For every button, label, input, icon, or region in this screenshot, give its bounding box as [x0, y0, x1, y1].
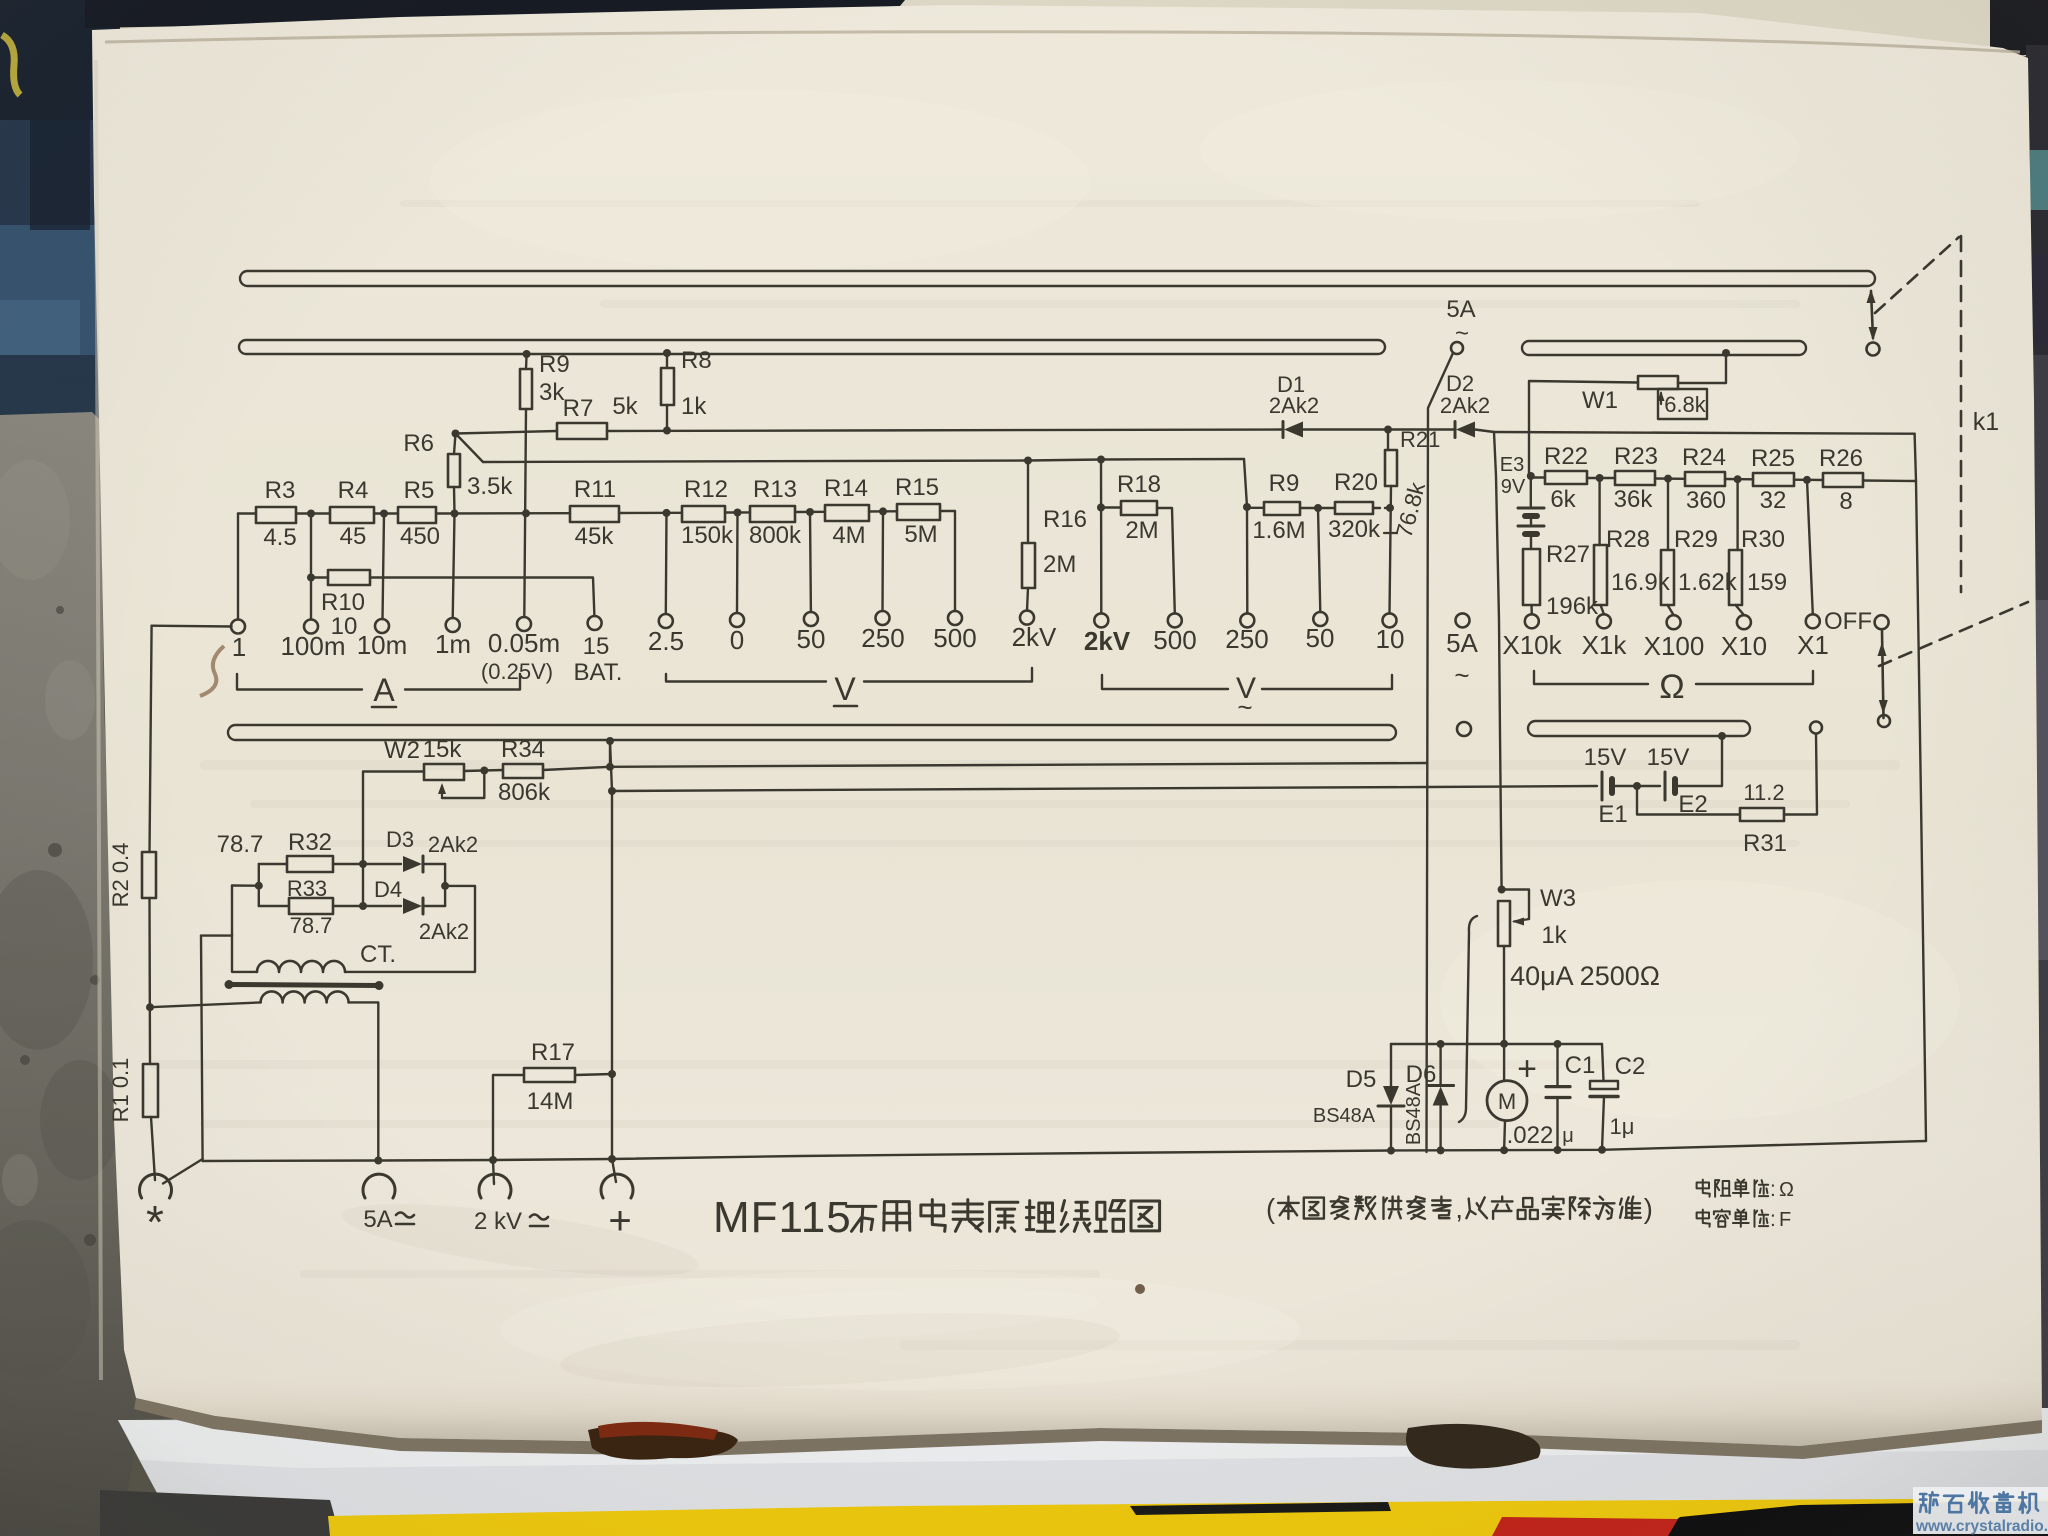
- resistor R7 5k: [557, 423, 607, 439]
- wire 250 ac junction vertical: [1246, 507, 1249, 613]
- resistor R27 196k: [1523, 549, 1540, 605]
- terminal X1k: [1597, 614, 1611, 628]
- wire E2 right corner up to bar row3 right: [1675, 738, 1722, 786]
- wire R6 top to node: [454, 434, 456, 455]
- resistor R22 6k: [1545, 471, 1587, 484]
- wire A-row resistor chain: [238, 512, 256, 514]
- terminal X10: [1737, 615, 1751, 629]
- switch contact 5A top: [1451, 342, 1463, 354]
- wire bottom long line: [203, 1141, 1926, 1161]
- wire R6 wiper diagonal: [456, 434, 484, 463]
- page stack pale band top: [85, 0, 2048, 60]
- wire D1 to R21 junction to D2: [1303, 428, 1454, 430]
- resistor R32 78.7: [259, 863, 287, 865]
- wire R16 top: [1027, 461, 1029, 544]
- wire D3 to right node: [424, 863, 445, 865]
- wire R31 branch: [1637, 786, 1740, 815]
- svg-text:www.crystalradio.cn: www.crystalradio.cn: [1915, 1518, 2048, 1535]
- dashed link k1 upper: [1875, 237, 1959, 313]
- bus bar row2 right: [1522, 341, 1806, 355]
- wire D2 to omega block corner: [1475, 430, 1494, 433]
- paper crease bottom-middle: [559, 1301, 1122, 1398]
- dark shade bottom-left under page: [100, 1490, 340, 1536]
- value box 6.8k with wiper arrow: [1658, 389, 1707, 419]
- contact circle 5A lower: [1457, 722, 1471, 736]
- paper subtle shading streaks: [150, 200, 1900, 1350]
- resistor R10 10 shunt: [328, 570, 370, 585]
- resistor R16 2M: [1022, 543, 1035, 588]
- wire R8 top to bar row2: [666, 353, 668, 368]
- wire R31 right up to contact circle: [1784, 734, 1817, 815]
- wire R24 to R25 junction: [1725, 478, 1753, 481]
- resistor R8 1k: [661, 368, 674, 405]
- battery E1 15V: [1601, 772, 1604, 800]
- resistor R34 806k: [503, 764, 543, 778]
- wire plus vertical: [610, 741, 612, 1159]
- wire 5A diagonal to vertical: [1427, 353, 1453, 763]
- wire R32 R33 left node: [258, 864, 260, 906]
- wire R6 bottom to A-row junction: [453, 487, 456, 514]
- wire R5 to R6 junction to R11: [436, 512, 570, 515]
- battery E3 9V: [1527, 472, 1535, 480]
- wire R29 to X100: [1668, 605, 1674, 615]
- switch wiper arrow k1 on bar row1: [1871, 291, 1873, 338]
- wire R21 bottom to 10 terminal: [1390, 486, 1392, 613]
- bracket A range: [237, 674, 362, 690]
- wire R11 to 2.5 junction: [619, 512, 682, 515]
- wire R12 to 0 junction: [725, 511, 750, 513]
- terminal X1: [1806, 614, 1820, 628]
- wire 2kV ac vertical: [1100, 460, 1103, 614]
- bracket ohm range: [1534, 671, 1648, 684]
- transformer CT secondary winding: [232, 886, 257, 972]
- resistor R33 78.7: [259, 905, 289, 907]
- wire R8 bottom to R7 line: [666, 405, 668, 431]
- diode D5 BS48A: [1390, 1044, 1392, 1086]
- resistor R6 3.5k: [448, 454, 460, 487]
- wire left vertical R2 R1 chain: [150, 626, 152, 852]
- terminal X10k: [1525, 614, 1539, 628]
- resistor R20 320k: [1335, 502, 1373, 514]
- terminal 50 ac: [1313, 612, 1327, 626]
- wire battery row E1 E2: [612, 786, 1597, 791]
- wire R10 row to BAT terminal: [311, 576, 328, 578]
- diode D1 2Ak2: [1282, 422, 1285, 438]
- resistor R31 11.2: [1740, 808, 1784, 821]
- wire R27 to X10k: [1530, 605, 1533, 614]
- wire terminal 1 to left vertical: [152, 625, 232, 628]
- wire R9 bottom vertical to 0.05m terminal: [524, 409, 526, 617]
- wire R33 to D4: [333, 905, 401, 907]
- wire R20 dashed link to R21: [1373, 507, 1389, 509]
- wire R9 top to bar row2: [525, 354, 528, 369]
- potentiometer W3 1k: [1498, 901, 1510, 946]
- terminal 1: [231, 620, 245, 634]
- wire R28 to X1k: [1601, 605, 1604, 614]
- bracket V range: [666, 674, 826, 682]
- meter zero lever line: [1459, 916, 1477, 1122]
- resistor R25 32: [1753, 473, 1794, 486]
- resistor R15 5M: [897, 504, 940, 520]
- contact circle k1: [1867, 343, 1880, 356]
- terminal 500: [948, 611, 962, 625]
- wiper W2 arrow: [442, 771, 484, 799]
- meter M movement: [1503, 1044, 1505, 1081]
- bus bar row3 left: [228, 725, 1396, 740]
- wire R23 to R24 junction: [1655, 477, 1685, 480]
- yellow band bottom: [328, 1499, 2048, 1536]
- wire R9 to R20 junction: [1300, 507, 1335, 509]
- wire R7 row to D1 D2: [456, 431, 558, 434]
- potentiometer W1 6.8k: [1638, 376, 1678, 389]
- switch arrow OFF to lower contact: [1882, 631, 1884, 718]
- dashed link k1 vertical: [1960, 236, 1963, 592]
- terminal 250: [876, 611, 890, 625]
- terminal 5A: [1456, 613, 1470, 627]
- diode D2 2Ak2: [1454, 422, 1457, 438]
- resistor R14 4M: [825, 505, 869, 521]
- resistor R23 36k: [1615, 471, 1655, 485]
- wire 250 junction to R9: [1247, 507, 1264, 509]
- watermark crystalradio: [1913, 1487, 2048, 1535]
- terminal X100: [1667, 615, 1681, 629]
- terminal 1m: [446, 618, 460, 632]
- wire R30 to X10: [1736, 605, 1744, 615]
- terminal 500 ac: [1168, 613, 1182, 627]
- wire R25 to R26 junction: [1794, 479, 1823, 482]
- resistor R9 1.6M: [1264, 502, 1300, 515]
- battery E2 15V: [1664, 772, 1667, 800]
- wire R17 left: [493, 1075, 524, 1160]
- bracket V~ range: [1102, 675, 1228, 689]
- wire node R6 top junction: [452, 430, 460, 438]
- resistor R29 1.62k: [1667, 479, 1669, 550]
- resistor R4 45: [330, 507, 374, 523]
- wire R15 to 500 terminal: [940, 511, 955, 611]
- terminal 2kV dc: [1020, 611, 1034, 625]
- resistor R11 45k: [570, 506, 619, 522]
- resistor R12 150k: [682, 506, 725, 522]
- concrete ground left: [0, 412, 140, 1536]
- terminal 2kV ac bottom: [493, 1160, 494, 1184]
- terminal 10 ac: [1383, 613, 1397, 627]
- resistor R9 3k: [520, 369, 532, 409]
- terminal plus: [612, 1159, 616, 1182]
- wire W2 left corner down to D3 row: [363, 772, 424, 907]
- white under-page bottom: [118, 1408, 2048, 1536]
- wire omega block top right corner down: [1915, 434, 1916, 481]
- wire R32 to D3: [333, 863, 401, 865]
- wire omega block top line: [1494, 432, 1915, 434]
- resistor R30 159: [1736, 479, 1738, 550]
- resistor R28 16.9k: [1598, 478, 1600, 545]
- wire R16 bottom to 2kV dc terminal: [1027, 588, 1028, 611]
- resistor R26 8: [1823, 473, 1863, 487]
- resistor R18 2M: [1121, 501, 1157, 515]
- wire E3 node to R22: [1531, 476, 1545, 478]
- resistor R21 76.8k: [1385, 450, 1397, 486]
- wire corner diagonal to star terminal: [163, 1159, 203, 1184]
- wire W2 row from bar row3: [606, 737, 614, 745]
- wire R21 top to D1 line: [1387, 430, 1389, 451]
- stain crack near 100m: [200, 646, 224, 696]
- wire W1 left to E3 vertical: [1529, 381, 1638, 476]
- wire 2kV rail corner down to 250 junction: [1244, 459, 1247, 507]
- terminal 250 ac: [1240, 613, 1254, 627]
- wire R6 line to R16 and 2kV rail: [483, 459, 1244, 462]
- note capacitance unit: [1697, 1210, 1710, 1227]
- resistor R5 450: [398, 507, 436, 523]
- wire meter block bottom junctions: [1387, 1147, 1395, 1155]
- wire D3 D4 right node: [444, 864, 446, 906]
- terminal 10m: [375, 619, 389, 633]
- red patch bottom: [1492, 1517, 1678, 1536]
- wire R2 to R1: [148, 898, 151, 1064]
- contact circle below OFF: [1878, 715, 1890, 727]
- resistor R1 0.1: [143, 1064, 158, 1117]
- contact circle above R31: [1810, 722, 1822, 734]
- wire R25R26 junction down to X1: [1807, 480, 1813, 614]
- wire R3-R4 junction: [296, 512, 330, 514]
- terminal 0: [730, 613, 744, 627]
- wire R18 left: [1101, 506, 1121, 508]
- wire left vertical of lower loop: [201, 936, 203, 1161]
- wire junction verticals to terminals A V rows: [237, 514, 239, 620]
- note resistance unit: [1697, 1180, 1710, 1197]
- page stack edge lines top: [105, 32, 2020, 52]
- wire CT jog to outer loop: [201, 934, 232, 936]
- resistor R17 14M: [524, 1068, 575, 1082]
- resistor R2 0.4: [142, 852, 156, 898]
- dark sliver right edge: [2026, 45, 2048, 1445]
- wire R34 right to 1427 vertical: [543, 763, 1427, 770]
- capacitor C1 .022u: [1556, 1044, 1558, 1087]
- diode D6 BS48A: [1439, 1044, 1441, 1086]
- wire W3 node: [1498, 886, 1506, 894]
- wire W1 right to bar row2 right: [1678, 355, 1726, 383]
- dark strip above paper: [85, 0, 905, 28]
- wire 50 ac vertical: [1318, 508, 1320, 612]
- transformer core bar: [228, 985, 380, 986]
- resistor R24 360: [1685, 472, 1725, 486]
- wire R13 to 50 junction: [795, 511, 825, 514]
- diode D4 2Ak2: [422, 898, 425, 914]
- paper bottom rolled edge shadow: [134, 1398, 2042, 1459]
- wire meter block top rail: [1391, 1043, 1602, 1045]
- wire R17 right to plus vertical: [575, 1074, 612, 1075]
- wire R26 right to corner: [1863, 479, 1916, 482]
- potentiometer W2 15k: [424, 764, 464, 780]
- terminal star: [140, 1174, 172, 1198]
- wire W3 bottom to meter block: [1503, 946, 1505, 1043]
- resistor R3 4.5: [256, 507, 296, 523]
- transformer primary winding: [261, 991, 349, 1002]
- wiper W3 bracket: [1502, 890, 1529, 920]
- wire R1 to star terminal: [151, 1117, 155, 1180]
- wire R18 right to 500 ac terminal: [1157, 508, 1175, 613]
- black band bottom-right: [1655, 1501, 2048, 1536]
- diode D3 2Ak2: [422, 856, 425, 872]
- bus bar row1 (common contact rail): [240, 271, 1875, 286]
- terminal 100m: [304, 620, 318, 634]
- terminal 2.5: [659, 614, 673, 628]
- wire right side big loop: [1916, 481, 1926, 1141]
- bus bar row2 left: [239, 340, 1385, 354]
- terminal 15 BAT: [588, 616, 602, 630]
- wire R14 to 250 junction: [869, 510, 897, 513]
- wire R4-R5 junction: [374, 512, 398, 514]
- terminal 50: [804, 612, 818, 626]
- wire 5A ac terminal column: [363, 1174, 395, 1198]
- wire W2 to R34 junction: [464, 770, 503, 771]
- stain blob on bottom roll left: [588, 1425, 738, 1459]
- capacitor C2 1u electrolytic: [1602, 1044, 1604, 1081]
- denim fabric top-left: [0, 0, 120, 430]
- stain blob on bottom roll right: [1406, 1424, 1541, 1469]
- wire E1 to E2 junction: [1612, 785, 1660, 787]
- dashed link k1 lower to second pole: [1879, 602, 2028, 666]
- wire R22 to R23 junction: [1587, 477, 1615, 479]
- terminal 0.05m: [517, 617, 531, 631]
- wire 5A vertical lower to bottom line: [1425, 763, 1428, 1152]
- terminal OFF: [1875, 615, 1889, 629]
- wire omega block left vertical: [1494, 432, 1502, 890]
- wire D4 to right node: [424, 905, 445, 907]
- bus bar row3 right: [1528, 721, 1750, 736]
- terminal 2kV ac: [1094, 613, 1108, 627]
- resistor R13 800k: [750, 506, 795, 522]
